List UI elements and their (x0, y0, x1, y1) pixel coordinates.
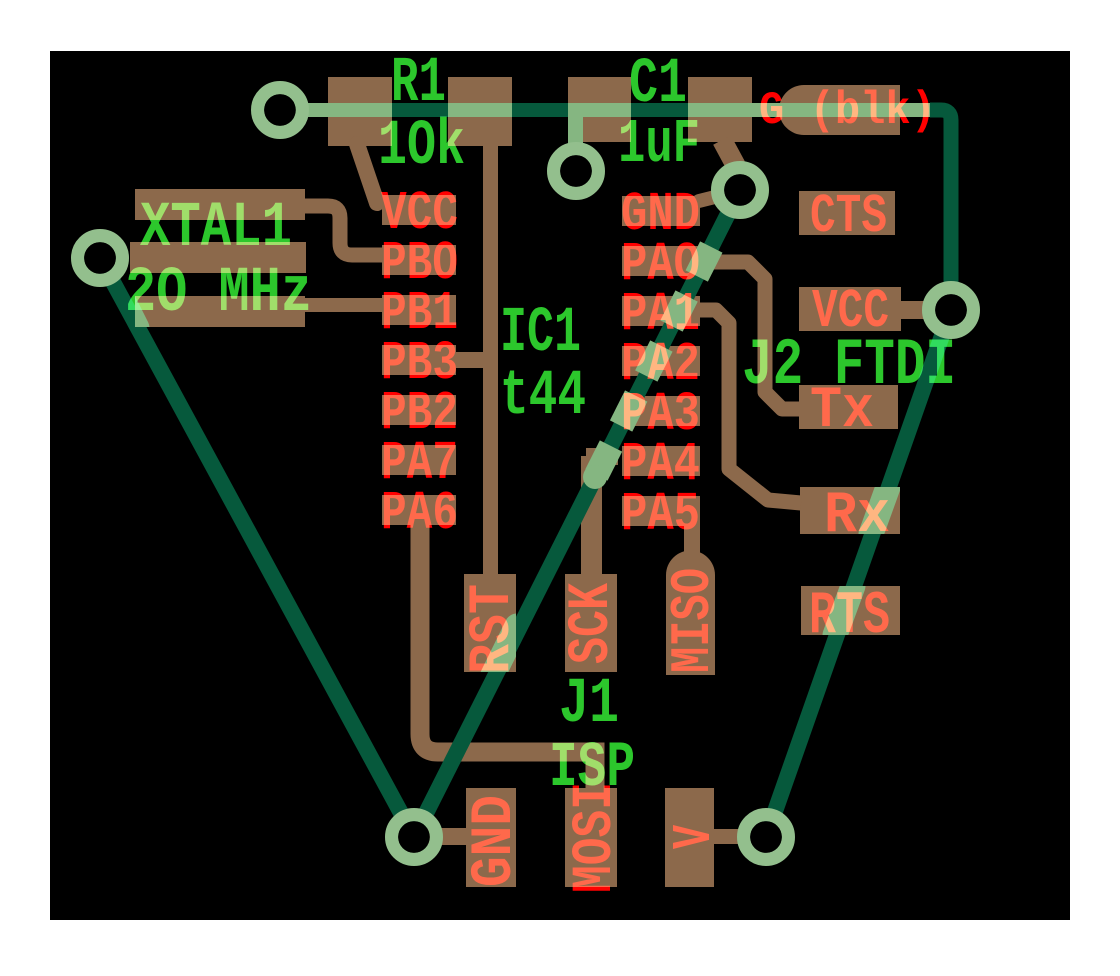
svg-text:IC1: IC1 (500, 298, 581, 370)
svg-text:t44: t44 (500, 361, 586, 433)
wire R1 pad1 to IC1 VCC (357, 144, 377, 203)
wire FTDI VCC pad to via5 (899, 301, 927, 319)
wire C1 pad2 to via3 (722, 140, 736, 166)
J2 FTDI pad Tx (799, 385, 898, 429)
net over copper: PA3 crossing (621, 396, 636, 426)
via V7 hole (750, 821, 782, 853)
wire net via3 to via6 diagonal (414, 190, 740, 837)
svg-text:RTS: RTS (809, 583, 890, 651)
J1 ISP pad GND (466, 788, 516, 887)
net over copper: PA4 crossing (596, 446, 611, 475)
via V2 hole (560, 155, 592, 187)
wire RST: R1 pad2 to RST pad (483, 140, 498, 576)
net over copper: Rx crossing (871, 487, 888, 534)
wire net via5 to via7 diagonal (766, 310, 951, 837)
svg-text:MOSI: MOSI (564, 782, 628, 893)
svg-text:CTS: CTS (810, 185, 887, 248)
wire XTAL1 pad1 to PB0 (300, 206, 384, 255)
svg-text:Rx: Rx (824, 484, 890, 549)
svg-text:Tx: Tx (810, 379, 874, 444)
wire via1 to R1 pad1 (270, 103, 328, 117)
J2 FTDI pad CTS (799, 191, 895, 235)
IC1 pad PA2 (622, 346, 700, 376)
crystal XTAL1 pad 2 (135, 296, 305, 327)
IC1 pad GND (622, 196, 700, 226)
IC1 pad PA4 (622, 446, 700, 476)
resistor R1 pad 2 (448, 77, 512, 146)
wire PA5 to MISO (684, 524, 700, 554)
J1 ISP pad SCK (565, 574, 617, 672)
svg-text:MISO: MISO (661, 568, 725, 673)
crystal XTAL1 pad 1 (135, 189, 305, 220)
net over copper: PA0 crossing (697, 247, 712, 276)
wire PA1 to Rx (698, 310, 801, 503)
svg-text:1Ok: 1Ok (378, 111, 465, 183)
J2 FTDI pad RTS (801, 586, 900, 635)
net over copper: R1 pad2 (448, 103, 512, 117)
svg-text:GND: GND (463, 795, 528, 887)
net over copper: RST pad crossing (492, 626, 517, 677)
via V1 (258, 88, 303, 133)
via V5 (929, 288, 974, 333)
svg-text:G (blk): G (blk) (759, 85, 936, 137)
IC1 pad PA5 (622, 496, 700, 526)
J2 FTDI pad Rx (800, 487, 900, 534)
wire net via4 to via6 diagonal (100, 258, 414, 837)
IC1 pad PB1 (382, 295, 456, 325)
net over copper: PA2 crossing (646, 346, 661, 376)
J1 ISP pad RST (464, 574, 516, 672)
svg-text:2O MHz: 2O MHz (125, 258, 312, 330)
net over copper: PA4 blob cap (583, 465, 607, 489)
crystal XTAL1 body bar (130, 242, 306, 273)
net over copper: C1 pad1 (568, 103, 631, 117)
via V7 (744, 815, 789, 860)
J2 FTDI pad VCC (799, 287, 901, 331)
wire net seg C1.1-C1.2 (631, 103, 688, 117)
J1 ISP pad MOSI (565, 788, 617, 887)
wire XTAL1 pad2 to PB1 (300, 298, 384, 312)
via V6 (392, 815, 437, 860)
svg-text:V: V (663, 825, 726, 849)
resistor R1 pad 1 (328, 77, 392, 146)
svg-text:XTAL1: XTAL1 (140, 193, 292, 265)
svg-text:RST: RST (461, 584, 526, 674)
net over copper: via1 to R1.1 (280, 103, 392, 117)
svg-text:J1: J1 (559, 669, 619, 741)
capacitor C1 pad 1 (568, 77, 631, 142)
wire PA0 to Tx (698, 262, 801, 409)
wire G pad to corner (900, 103, 930, 117)
svg-text:PA6: PA6 (381, 482, 458, 545)
net over copper: PA1 crossing (672, 296, 687, 326)
J1 ISP pad V (665, 788, 714, 887)
wire MOSI: PA6 to MOSI pad (420, 523, 595, 789)
IC1 pad PA7 (382, 445, 456, 475)
net over copper: RTS crossing (835, 586, 853, 635)
net over copper: XTAL pad2 corner crossing (120, 294, 137, 328)
wire via6 to GND pad (414, 828, 466, 845)
via V1 hole (264, 94, 296, 126)
wire net seg R1.2-C1.1 (512, 103, 568, 117)
via V4 (78, 236, 123, 281)
via V4 hole (84, 242, 116, 274)
via V2 (554, 149, 599, 194)
net over copper: C1.2 to G pad (688, 103, 930, 117)
wire C1 pad2 to GND net link (752, 103, 779, 117)
svg-text:PA5: PA5 (621, 483, 700, 546)
net over copper: C1 pad1 stem to via2 (568, 110, 583, 148)
wire net corner to via5 (930, 110, 951, 290)
wire PA4 stub (586, 448, 618, 465)
wire net seg R1.1-R1.2 (392, 103, 448, 117)
via V5 hole (935, 294, 967, 326)
IC1 pad PB2 (382, 395, 456, 425)
svg-text:VCC: VCC (812, 280, 889, 343)
wire GND pad stub to via3 (699, 197, 715, 201)
wire SCK trace (581, 456, 602, 576)
IC1 pad PA3 (622, 396, 700, 426)
IC1 pad VCC (382, 195, 456, 225)
IC1 pad PB0 (382, 245, 456, 275)
IC1 pad PA0 (622, 246, 700, 276)
svg-text:1uF: 1uF (618, 109, 700, 180)
IC1 pad PA6 (382, 495, 456, 525)
J2 FTDI pad G(blk) (779, 85, 900, 135)
wire PB3 stub (456, 352, 485, 368)
J1 ISP pad MISO (666, 551, 715, 675)
IC1 pad PB3 (382, 345, 456, 375)
svg-text:SCK: SCK (560, 583, 625, 664)
via V3 hole (724, 174, 756, 206)
via V6 hole (398, 821, 430, 853)
wire V pad to via7 (714, 829, 738, 844)
capacitor C1 pad 2 (688, 77, 752, 142)
via V3 (718, 168, 763, 213)
svg-text:R1: R1 (391, 48, 446, 120)
IC1 pad PA1 (622, 296, 700, 326)
